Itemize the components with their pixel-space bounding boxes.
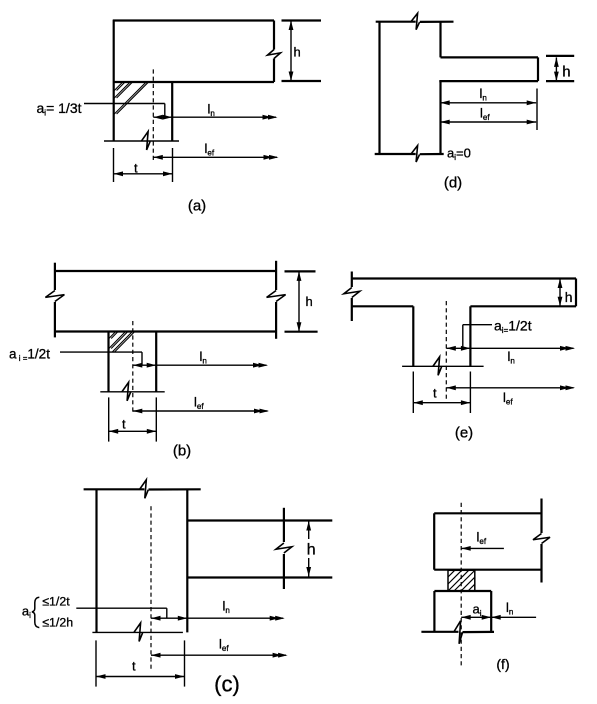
svg-text:t: t (132, 659, 136, 674)
label t (a) (134, 161, 138, 176)
support centreline (b) dashed (132, 321, 134, 412)
beam (b) top edge (55, 270, 276, 272)
label l_ef (f) (477, 530, 487, 547)
svg-text:a i =1/2t: a i =1/2t (9, 347, 50, 364)
svg-text:t: t (122, 417, 126, 432)
label t (e) (433, 386, 437, 401)
leader line from a1 label (a) (84, 104, 165, 118)
svg-text:h: h (307, 542, 316, 559)
bearing hatch (a) stripe 3 (114, 82, 148, 114)
support (c) left face (95, 489, 97, 632)
dimension t (b) (109, 429, 157, 434)
label h (d) (562, 64, 570, 81)
beam (b) left cut line with break (45, 263, 64, 338)
figure (a) beam on end wall, a1=1/3t (37, 20, 322, 215)
dimension l_ef (e) (446, 385, 575, 390)
wall (b) left face (107, 332, 109, 392)
figure (b) continuous beam over wall, a1=1/2t (9, 261, 318, 460)
svg-text:≤1/2t: ≤1/2t (42, 595, 70, 609)
slab (e) right end (575, 279, 577, 307)
svg-text:ln: ln (506, 600, 513, 617)
dimension h (e) inside slab (558, 279, 563, 307)
wall break line (e) (402, 357, 484, 376)
label a1=1/2t (b) (9, 347, 50, 364)
label h (e) (565, 289, 573, 305)
svg-text:ln: ln (200, 349, 207, 366)
bearing hatch (b) stripe 1 (109, 332, 118, 339)
svg-text:h: h (562, 64, 570, 81)
svg-text:t: t (134, 161, 138, 176)
label l_ef (b) (194, 395, 204, 412)
figure (d) slab cast into column, a1=0 (375, 13, 575, 191)
beam (b) right cut line with break (267, 261, 286, 339)
dimension h (a) (289, 21, 294, 82)
dimension l_n (f) (491, 615, 536, 620)
svg-text:lef: lef (194, 395, 204, 412)
h extension lines (b) (285, 271, 318, 331)
beam (f) left end (433, 513, 435, 569)
svg-text:ai: ai (473, 602, 482, 619)
slab (d) right end (537, 57, 539, 81)
beam (c) soffit (187, 576, 332, 578)
beam (f) top edge (434, 512, 541, 514)
caption (c) (214, 672, 240, 697)
slab (e) left cut line with break (344, 272, 360, 322)
svg-text:ai= 1/3t: ai= 1/3t (37, 100, 82, 118)
h extension lines (a) (282, 21, 322, 82)
label t (c) (132, 659, 136, 674)
beam (c) top edge (187, 519, 332, 521)
svg-text:(a): (a) (188, 198, 206, 215)
caption (e) (455, 425, 473, 442)
beam (f) soffit (434, 569, 541, 571)
bearing hatch (a) stripe 2 (114, 82, 132, 98)
svg-text:ln: ln (208, 102, 215, 119)
column (d) top line with break (376, 13, 454, 30)
dimension t (a) (114, 171, 173, 176)
support (c) right face (186, 489, 188, 632)
figure (e) continuous slab over wall, a1=1/2t (344, 272, 576, 442)
slab (e) soffit left of wall (352, 305, 413, 307)
leader line from a1 label (b) (60, 352, 142, 365)
wall (e) right face (469, 306, 471, 366)
dimension a1 (a) (153, 115, 172, 120)
svg-text:h: h (294, 45, 301, 60)
slab (d) top edge (441, 56, 539, 58)
dimension a1 (e) (446, 346, 470, 351)
svg-text:ai: ai (22, 604, 31, 621)
label l_ef (e) (503, 390, 513, 407)
dimension l_ef (b) (133, 409, 269, 414)
slab (e) top edge (352, 277, 576, 279)
column (d) right face above slab (439, 22, 441, 58)
column (d) bottom line with break (375, 146, 444, 163)
figure (f) beam on bearing pad / corbel (421, 499, 550, 673)
beam (a) top edge (113, 19, 274, 21)
dimension a1 (f) (461, 615, 491, 620)
svg-text:(d): (d) (444, 175, 462, 192)
support centreline (e) dashed (445, 301, 447, 399)
svg-text:h: h (306, 294, 313, 309)
label l_ef (a) (205, 141, 215, 158)
dimension t (e) (413, 400, 470, 405)
label t (b) (122, 417, 126, 432)
dimension l_ef (a) (153, 155, 278, 160)
figure (c) beam into wide support (22, 480, 332, 697)
dimension h (d) (554, 57, 559, 81)
label h (b) (306, 294, 313, 309)
beam (a) soffit line (113, 81, 274, 83)
wall (b) right face (155, 332, 157, 392)
svg-text:lef: lef (480, 106, 490, 123)
t dimension extension lines (e) (413, 372, 470, 414)
svg-text:lef: lef (503, 390, 513, 407)
dimension t (c) (96, 674, 185, 679)
label h (a) (294, 45, 301, 60)
wall (e) left face (412, 306, 414, 366)
support centreline (f) dashed (460, 503, 462, 666)
caption (f) (496, 656, 509, 672)
caption (b) (173, 443, 191, 460)
bearing pad (f) hatched (448, 570, 475, 591)
column (d) left face (378, 22, 380, 154)
label l_ef (c) (219, 637, 229, 654)
beam (a) right cut line with break (268, 21, 281, 83)
label l_n (a) (208, 102, 215, 119)
label l_n (f) (506, 600, 513, 617)
label l_n (e) (508, 349, 515, 366)
dimension l_n (d) (440, 100, 536, 105)
leader line from a1 label (e) (463, 325, 492, 349)
beam (b) soffit (55, 330, 276, 332)
svg-text:lef: lef (219, 637, 229, 654)
support centreline (a) dashed (152, 69, 154, 161)
svg-text:(c): (c) (214, 672, 240, 697)
svg-text:ln: ln (480, 86, 487, 103)
slab end extension line (d) (536, 89, 538, 131)
t dimension extension lines (a) (114, 148, 173, 182)
svg-text:≤1/2h: ≤1/2h (42, 615, 73, 629)
svg-text:lef: lef (205, 141, 215, 158)
support break line (c) (92, 623, 182, 642)
bearing hatch (b) stripe 2 (109, 332, 128, 349)
beam (c) right cut line with break (276, 508, 292, 589)
h extension lines (d) (546, 56, 574, 81)
wall (a) outer face (left edge of beam and wall) (113, 20, 115, 141)
dimension l_ef (f) (461, 546, 504, 551)
wall break line (a) (104, 132, 179, 151)
svg-text:lef: lef (477, 530, 487, 547)
svg-text:ln: ln (508, 349, 515, 366)
label a1=1/3t (a) (37, 100, 82, 118)
label l_n (c) (223, 599, 230, 616)
dimension h (b) (297, 271, 302, 331)
support block (f) bottom line with break (421, 621, 494, 644)
svg-text:(b): (b) (173, 443, 191, 460)
dimension h (c) (306, 521, 311, 577)
caption (d) (444, 175, 462, 192)
label h (c) (307, 542, 316, 559)
svg-text:(e): (e) (455, 425, 473, 442)
wall break line (b) (100, 382, 164, 401)
svg-text:ai=0: ai=0 (447, 146, 471, 163)
t dimension extension lines (c) (96, 640, 185, 686)
label a1 (f) (473, 602, 482, 619)
support (c) top line with break (84, 480, 201, 499)
label a1=1/2t (e) (494, 318, 532, 336)
svg-text:ai=1/2t: ai=1/2t (494, 318, 532, 336)
label a1 with brace and limits (c) (22, 595, 73, 630)
svg-text:ln: ln (223, 599, 230, 616)
label l_n (b) (200, 349, 207, 366)
dimension l_n (c) (187, 616, 284, 621)
dimension a1 (b) (133, 363, 156, 368)
support centreline (c) dashed (150, 506, 152, 671)
dimension l_ef (c) (151, 653, 288, 658)
svg-text:t: t (433, 386, 437, 401)
bearing hatch (b) stripe 3 (113, 332, 135, 352)
label l_n (d) (480, 86, 487, 103)
bearing hatch (a) stripe 1 (114, 82, 125, 90)
beam (f) right cut line with break (533, 499, 550, 583)
caption (a) (188, 198, 206, 215)
slab (e) soffit right of wall (470, 305, 576, 307)
t dimension extension lines (b) (109, 397, 157, 441)
column (d) right face below slab (439, 81, 441, 154)
dimension l_n (b) (156, 363, 268, 368)
dimension l_n (e) (470, 346, 575, 351)
dimension a1 (c) (151, 616, 187, 621)
slab (d) soffit (439, 80, 538, 82)
label a1=0 (d) (447, 146, 471, 163)
dimension l_ef (d) (440, 120, 536, 125)
svg-text:h: h (565, 289, 573, 305)
dimension l_n (a) (172, 115, 277, 120)
svg-text:(f): (f) (496, 656, 509, 672)
support block (f) (434, 591, 491, 632)
label l_ef (d) (480, 106, 490, 123)
leader line from a1 label (c) (76, 608, 167, 618)
wall (a) inner face (171, 82, 173, 141)
